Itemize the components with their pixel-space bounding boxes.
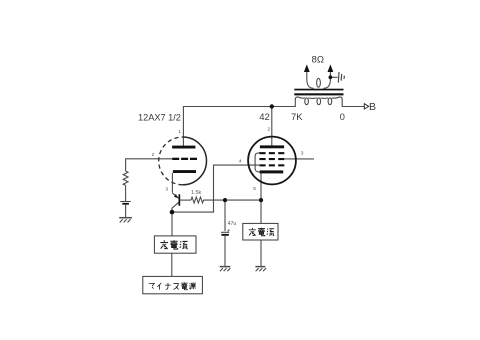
svg-text:2: 2: [152, 152, 155, 158]
svg-text:1.5k: 1.5k: [191, 190, 201, 196]
svg-text:4: 4: [239, 158, 242, 164]
svg-text:1: 1: [178, 129, 181, 135]
svg-text:3: 3: [301, 151, 304, 157]
svg-text:47u: 47u: [228, 221, 237, 227]
svg-text:7K: 7K: [291, 112, 303, 123]
svg-text:3: 3: [165, 186, 168, 192]
svg-text:12AX7 1/2: 12AX7 1/2: [138, 112, 181, 122]
svg-text:8Ω: 8Ω: [312, 55, 325, 66]
svg-text:2: 2: [268, 127, 271, 133]
svg-text:42: 42: [259, 112, 270, 123]
svg-text:0: 0: [340, 112, 345, 123]
svg-text:5: 5: [253, 186, 256, 192]
svg-text:B: B: [369, 101, 376, 113]
